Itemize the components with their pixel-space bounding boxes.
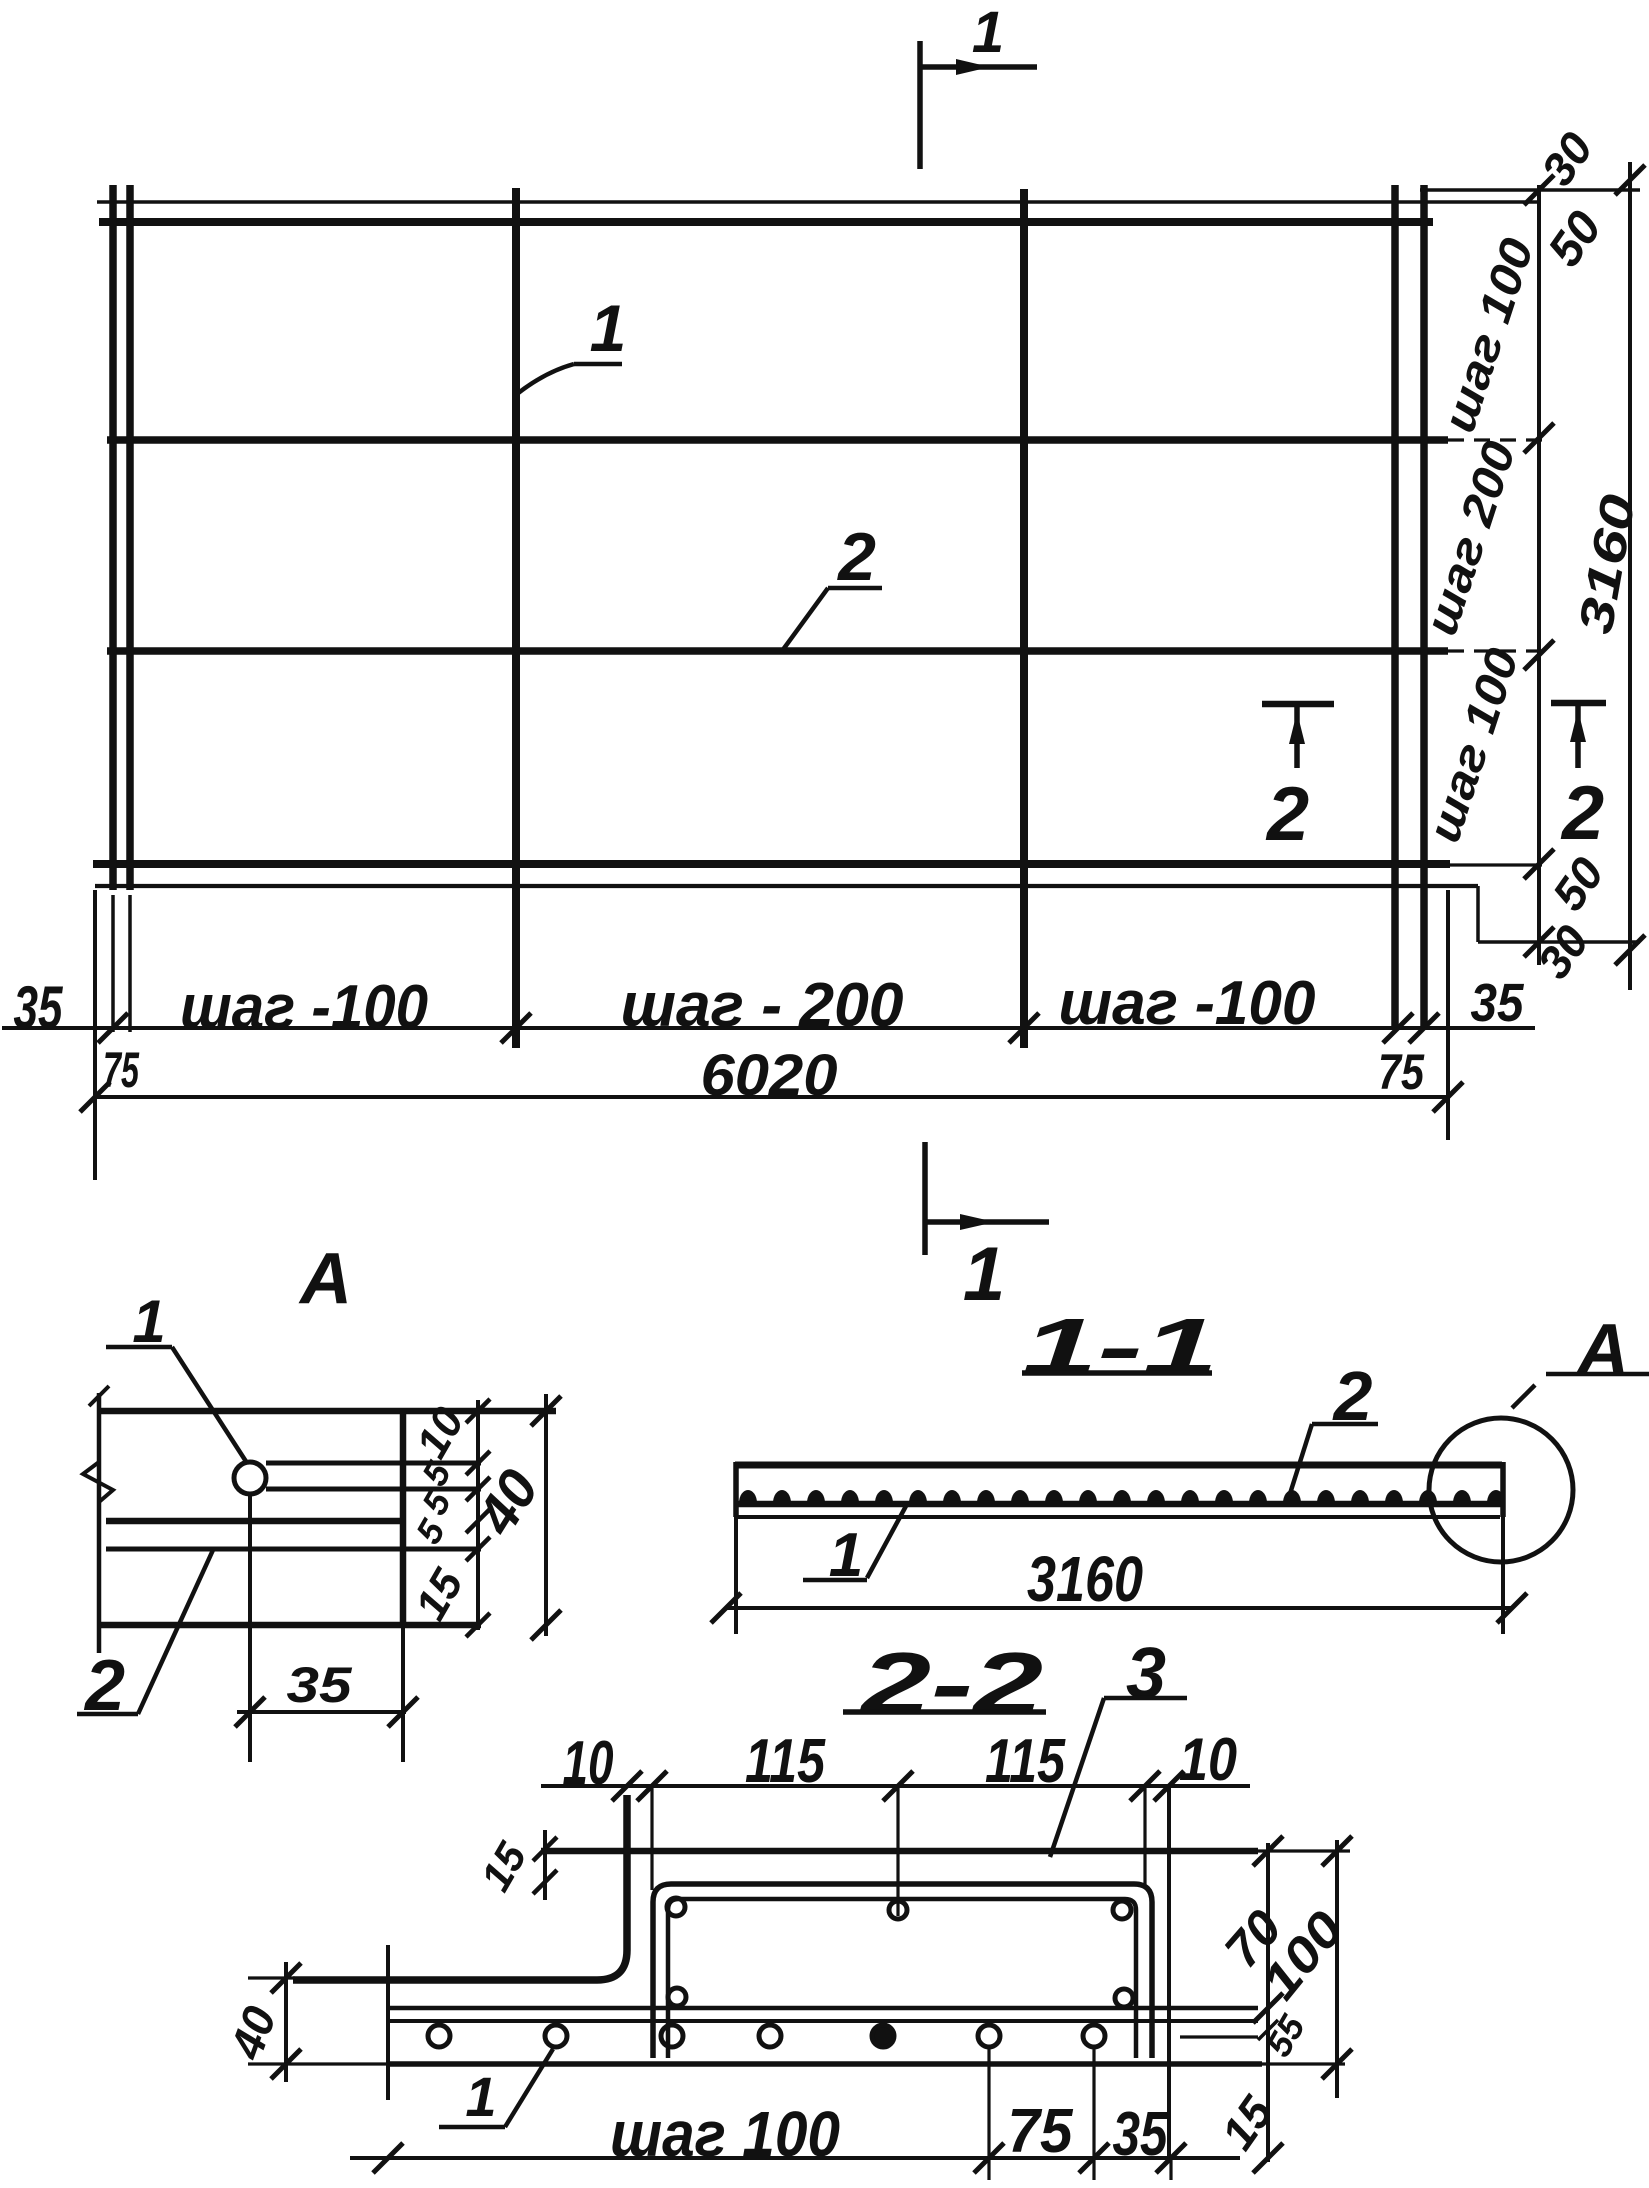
svg-text:A: A xyxy=(1575,1310,1629,1390)
svg-text:10: 10 xyxy=(1179,1726,1237,1793)
svg-text:35: 35 xyxy=(14,974,64,1041)
svg-text:3: 3 xyxy=(1126,1634,1166,1714)
svg-text:1: 1 xyxy=(972,0,1004,65)
svg-text:75: 75 xyxy=(1008,2097,1074,2166)
svg-text:1: 1 xyxy=(465,2065,496,2128)
svg-text:1: 1 xyxy=(590,291,627,365)
svg-text:A: A xyxy=(298,1239,352,1319)
svg-text:3160: 3160 xyxy=(1027,1543,1143,1615)
svg-text:35: 35 xyxy=(1113,2100,1169,2169)
svg-text:2: 2 xyxy=(836,519,876,595)
svg-text:шаг - 200: шаг - 200 xyxy=(621,971,904,1040)
svg-text:115: 115 xyxy=(745,1727,826,1796)
svg-text:2: 2 xyxy=(1560,771,1604,856)
svg-text:2: 2 xyxy=(1265,772,1309,857)
svg-text:10: 10 xyxy=(563,1729,614,1798)
svg-text:115: 115 xyxy=(985,1727,1066,1796)
svg-text:75: 75 xyxy=(103,1042,140,1098)
svg-text:шаг -100: шаг -100 xyxy=(1059,969,1316,1038)
svg-text:шаг 100: шаг 100 xyxy=(610,2098,840,2170)
svg-text:шаг -100: шаг -100 xyxy=(180,973,428,1042)
svg-text:6020: 6020 xyxy=(701,1043,838,1108)
svg-text:35: 35 xyxy=(287,1657,353,1713)
svg-text:1-1: 1-1 xyxy=(1022,1302,1218,1391)
svg-text:35: 35 xyxy=(1471,973,1525,1033)
svg-text:1: 1 xyxy=(963,1232,1005,1317)
svg-text:2-2: 2-2 xyxy=(858,1634,1043,1733)
svg-text:75: 75 xyxy=(1378,1044,1425,1100)
